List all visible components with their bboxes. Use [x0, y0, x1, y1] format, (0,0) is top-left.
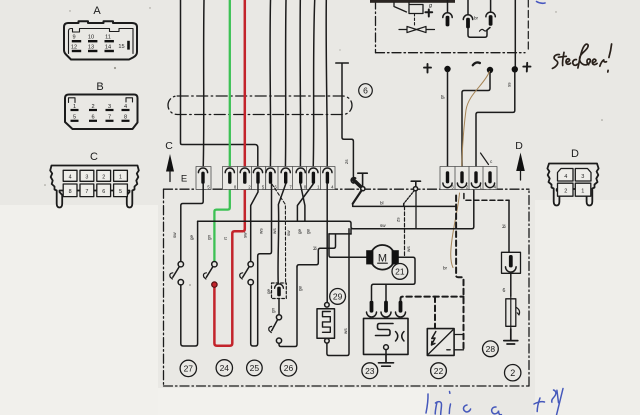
svg-text:ge: ge	[189, 234, 194, 240]
connector box right branch	[502, 252, 521, 273]
switch 25 lever hook	[240, 273, 243, 279]
svg-text:ss: ss	[507, 82, 512, 87]
svg-text:25: 25	[250, 363, 260, 373]
svg-text:ge: ge	[266, 288, 271, 294]
top-right relay box right edge	[527, 0, 529, 52]
junction dot 2	[487, 67, 493, 73]
svg-text:bl: bl	[502, 224, 507, 228]
svg-text:29: 29	[333, 292, 343, 302]
node 25 circled	[247, 360, 263, 376]
connector D cell 4	[558, 169, 574, 182]
connector C cell 4	[63, 170, 77, 181]
connector C cell 3	[80, 170, 94, 181]
connector B body	[65, 95, 138, 130]
terminal pin E8	[309, 168, 318, 173]
motor M21	[370, 245, 395, 270]
terminal pin E1	[198, 168, 207, 173]
svg-text:ge: ge	[298, 285, 303, 291]
svg-text:8: 8	[69, 189, 72, 195]
connector A body	[64, 21, 137, 59]
terminal pin E6	[281, 168, 290, 173]
terminal strip E box 2-4	[223, 167, 266, 190]
enclosure dashed box bottom edge	[164, 385, 530, 387]
lightning bolt in 22	[432, 332, 436, 346]
thin brown trace lower	[451, 193, 460, 268]
terminal pin E4	[253, 168, 262, 173]
plug pin K3 above box 23	[396, 312, 406, 317]
terminal strip E box 1	[196, 167, 211, 190]
svg-text:22: 22	[434, 366, 444, 376]
svg-text:ws: ws	[406, 246, 411, 252]
wire net from branch 27 return across	[198, 190, 474, 229]
svg-text:6: 6	[503, 288, 506, 294]
enclosure dashed box right edge	[528, 189, 530, 386]
svg-text:sw: sw	[243, 232, 248, 238]
switch 26 lever	[272, 320, 278, 331]
wire dot2 stepped to terminal	[462, 73, 490, 168]
svg-text:ge: ge	[306, 228, 311, 234]
plug pin K2 stub wire	[385, 284, 387, 300]
motor right wire	[372, 257, 416, 300]
connector C cell 8	[63, 184, 77, 197]
connector C cell 5	[114, 184, 128, 197]
node 23 circled	[362, 363, 378, 379]
switch 27 lower contact	[178, 280, 183, 285]
node 21 circled	[392, 264, 408, 280]
node 29 circled	[330, 289, 346, 305]
svg-text:15: 15	[118, 44, 124, 50]
svg-text:br: br	[474, 16, 479, 21]
terminal strip E box 5-9	[266, 167, 335, 190]
wire through box right	[514, 0, 516, 67]
svg-text:bl: bl	[380, 201, 384, 206]
plug P3 (arc and pin)	[486, 12, 495, 17]
meander element in 23	[376, 324, 394, 336]
dashed jumper to right branch	[464, 194, 509, 201]
connector C cell 6	[97, 184, 111, 197]
switch S1 thick lever	[354, 180, 362, 188]
switch S1 T-bar	[358, 173, 368, 186]
red wire rt from top to bottom U of 24	[214, 0, 244, 346]
connector B inner notch left	[69, 98, 76, 103]
dark bar at top edge	[370, 0, 455, 3]
svg-text:ge: ge	[297, 228, 302, 234]
arrow up at C	[166, 154, 174, 172]
wire bl horizontal	[353, 204, 456, 207]
node 2 circled	[505, 365, 521, 381]
svg-text:6: 6	[102, 189, 105, 195]
switch 27 lever	[173, 267, 180, 278]
branch 26 dash-dot feed	[272, 184, 286, 283]
switch S1 lower lever	[353, 190, 362, 203]
wires right of 22	[454, 335, 463, 350]
valve (bowtie)	[399, 26, 435, 32]
bold dashed wire from K3 across	[401, 297, 464, 301]
svg-text:D: D	[571, 148, 579, 160]
right branch wire down	[508, 200, 510, 252]
terminal pin E9	[323, 168, 332, 173]
terminal pin E3	[240, 168, 249, 173]
svg-text:sw: sw	[286, 230, 291, 236]
svg-text:2: 2	[564, 188, 567, 194]
terminal pin D1	[443, 183, 452, 188]
connector D body	[547, 164, 598, 206]
heater 29 element	[323, 312, 331, 333]
plug P2 (arc and pin)	[463, 15, 472, 20]
switch S1 hook curl	[351, 178, 355, 183]
svg-text:10: 10	[88, 35, 94, 41]
squiggle mark	[480, 29, 488, 31]
svg-text:gn: gn	[271, 307, 276, 313]
connector C body	[50, 166, 139, 208]
switch 25 lever	[243, 267, 250, 278]
switch 24 lever	[206, 267, 213, 278]
switch 26 lower contact	[276, 338, 281, 343]
svg-text:27: 27	[184, 364, 194, 374]
switch S2 lever	[404, 190, 415, 203]
green wire gn from top to switch 24	[214, 0, 229, 261]
svg-text:1: 1	[581, 188, 584, 194]
branch 25 U wire and return	[251, 184, 272, 346]
connector C cell 1	[114, 170, 128, 181]
relay contact symbol	[394, 3, 423, 14]
enclosure dashed box left edge	[163, 189, 165, 386]
wire below box 26	[278, 299, 280, 315]
arrow up at D	[516, 153, 525, 172]
switch 25 lower contact	[248, 280, 253, 285]
connector D cell 2	[558, 183, 574, 196]
svg-text:ws: ws	[259, 228, 264, 234]
branch 25 feed wire	[251, 184, 258, 261]
svg-text:sw: sw	[380, 223, 386, 228]
terminal pin E5	[266, 168, 275, 173]
top-right relay box bottom edge	[376, 52, 526, 54]
terminal pin D4	[485, 183, 494, 188]
paper speckles	[44, 7, 603, 286]
svg-text:sw: sw	[172, 232, 177, 238]
connector A inner outline	[69, 29, 134, 54]
fan blades in 23	[396, 332, 405, 342]
switch 24 lever hook	[203, 273, 206, 279]
switch 27 upper contact	[178, 262, 183, 267]
plug pin K1 above box 23	[367, 312, 377, 317]
switch S2 pivot	[413, 187, 417, 191]
terminal pin E2	[225, 168, 234, 173]
svg-text:bl: bl	[313, 246, 318, 250]
terminal pins strip E	[198, 168, 334, 189]
bold dashed vertical wire right	[456, 196, 463, 350]
wire stub above terminal D4	[481, 153, 489, 165]
switch 25 upper contact	[248, 262, 253, 267]
bold dashed wire down into box 22	[434, 297, 436, 329]
svg-text:13: 13	[88, 45, 94, 51]
connector box 26 (dashed)	[272, 283, 287, 299]
plug pin in right box	[505, 267, 516, 272]
switch 24 lower contact (red)	[212, 282, 217, 287]
switch S2 T-bar	[411, 181, 420, 186]
heater 29 return wire	[327, 229, 349, 356]
plug P2 wire	[467, 0, 469, 15]
heater 29 box	[317, 309, 335, 339]
terminal pin D3	[471, 183, 480, 188]
switch 24 upper contact	[212, 262, 217, 267]
terminal pin E7	[296, 168, 305, 173]
svg-text:5: 5	[119, 189, 122, 195]
svg-text:C: C	[165, 140, 173, 152]
wire 5	[269, 0, 272, 168]
svg-text:E: E	[181, 174, 187, 185]
switch S1 pivot	[361, 187, 365, 191]
svg-text:zs: zs	[396, 217, 401, 222]
svg-text:3: 3	[85, 174, 88, 180]
wire with T-bar to switch	[336, 63, 354, 177]
svg-text:A: A	[93, 5, 101, 17]
ground below fuse	[504, 329, 518, 344]
svg-text:3: 3	[581, 174, 584, 180]
branch 27 feed wire	[181, 184, 203, 261]
junction dot 3	[512, 66, 518, 72]
wire 9	[326, 0, 327, 168]
ground below 23	[379, 354, 394, 366]
svg-text:12: 12	[71, 45, 77, 51]
blue handwriting bottom	[426, 389, 563, 415]
svg-text:11: 11	[105, 35, 111, 41]
node 26 circled	[280, 360, 296, 376]
wire to fuse	[510, 273, 512, 296]
svg-text:ws: ws	[343, 328, 348, 334]
plug P1 wire	[447, 0, 449, 13]
connector D cell 1	[575, 183, 591, 196]
connector C cell 2	[97, 170, 111, 181]
switch 26 upper contact	[276, 315, 281, 320]
handwritten Stecker!	[552, 44, 611, 72]
enclosure dashed box top edge	[164, 188, 530, 190]
branch 26 bottom wire	[279, 267, 297, 347]
heater 29 top contact	[325, 303, 330, 308]
regulator box 22	[427, 329, 454, 356]
diagonal in 22	[429, 330, 453, 354]
svg-text:B: B	[96, 81, 103, 93]
wire from switch S2 down to sw line	[415, 191, 417, 229]
svg-text:6: 6	[363, 86, 368, 96]
fuse 28	[506, 299, 516, 327]
svg-text:C: C	[90, 151, 98, 163]
wire 6	[284, 0, 287, 168]
wire 1 top to terminal 4	[181, 0, 258, 168]
node 22 circled	[431, 363, 447, 379]
terminal pin D2	[457, 183, 466, 188]
connector C cell 7	[80, 184, 94, 197]
switch 26 lever hook	[269, 326, 272, 332]
plug pin K2 above box 23	[381, 312, 391, 317]
svg-text:7: 7	[85, 189, 88, 195]
wire from E9 down to 29	[326, 184, 328, 302]
branch 27 U wire	[181, 221, 198, 346]
stub at step	[350, 229, 352, 234]
svg-text:4: 4	[564, 174, 567, 180]
svg-text:14: 14	[105, 45, 111, 51]
top-right relay box left edge (dash-dot)	[375, 0, 377, 53]
plus cross right	[523, 63, 530, 72]
svg-text:ws: ws	[272, 228, 277, 234]
plug P1 (arc and pin)	[443, 13, 452, 18]
thin brown trace wire	[462, 72, 490, 167]
minus sign in 22	[447, 349, 450, 351]
svg-text:br: br	[443, 266, 448, 271]
arrow hook at fuse	[517, 308, 520, 316]
blue pen mark top	[537, 2, 546, 4]
valve stem (dashed)	[414, 14, 416, 27]
wire from E8 diagonal	[297, 184, 313, 221]
junction dot 1	[444, 66, 450, 72]
svg-text:gr: gr	[440, 94, 445, 99]
node 28 circled	[483, 341, 499, 357]
dashed wire from bl to motor right	[404, 206, 406, 257]
plus cross left	[424, 64, 431, 73]
dark tick mark	[473, 62, 480, 65]
wire 7	[299, 0, 301, 168]
svg-text:2: 2	[102, 174, 105, 180]
svg-text:23: 23	[365, 366, 375, 376]
wire dot1 to terminal	[447, 72, 449, 168]
wire br linking P2 to P3	[468, 28, 490, 38]
wire dot3 stepped to terminal	[476, 72, 515, 168]
connector D cell 3	[575, 169, 591, 182]
wire 8	[313, 0, 315, 168]
motor left feed wire	[329, 234, 367, 257]
svg-text:28: 28	[486, 344, 496, 354]
plug pin in box 26	[275, 284, 284, 288]
svg-text:gn: gn	[207, 234, 212, 240]
svg-text:21: 21	[395, 267, 405, 277]
svg-text:9: 9	[72, 35, 75, 41]
svg-text:D: D	[515, 140, 523, 152]
svg-text:24: 24	[220, 363, 230, 373]
contact in 23	[384, 345, 389, 350]
staircase wire up-right	[297, 234, 351, 267]
terminal strip D box	[440, 167, 497, 190]
plug P3 wire	[490, 0, 492, 12]
node 6 (circled)	[359, 84, 373, 98]
svg-text:26: 26	[284, 363, 294, 373]
wire 2 top to terminal 1	[202, 0, 205, 168]
branch 26 feed wire (wavy)	[278, 184, 286, 283]
heater 29 bottom contact	[325, 339, 330, 344]
plus cross inside box	[425, 10, 432, 17]
switch 27 lever hook	[170, 273, 173, 279]
svg-text:2: 2	[510, 368, 515, 378]
node 24 circled	[216, 360, 232, 376]
connector B inner notch right	[126, 98, 133, 102]
wire from E7 down	[300, 184, 305, 221]
svg-text:zs: zs	[344, 159, 349, 164]
svg-text:1: 1	[119, 174, 122, 180]
svg-text:4: 4	[69, 174, 72, 180]
node 27 circled	[180, 360, 196, 376]
harness sleeve (dash-dot oval)	[168, 96, 352, 115]
washer unit box 23	[364, 318, 409, 354]
